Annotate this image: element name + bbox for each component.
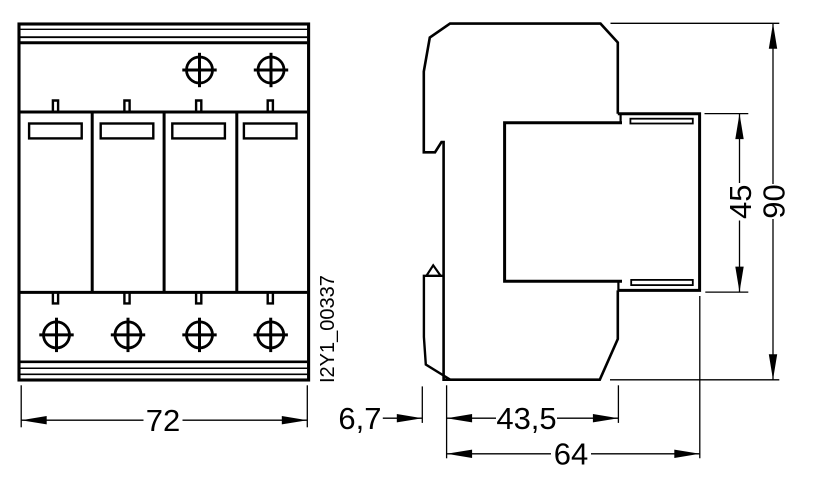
svg-text:72: 72 bbox=[146, 403, 180, 438]
svg-text:43,5: 43,5 bbox=[496, 401, 556, 436]
svg-text:45: 45 bbox=[723, 185, 758, 219]
svg-text:90: 90 bbox=[757, 184, 792, 218]
svg-text:I2Y1_00337: I2Y1_00337 bbox=[317, 275, 339, 383]
svg-text:6,7: 6,7 bbox=[338, 401, 381, 436]
svg-text:64: 64 bbox=[554, 437, 588, 472]
